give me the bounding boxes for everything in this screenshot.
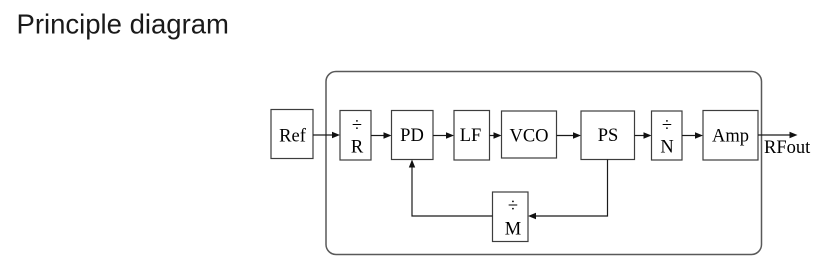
svg-text:LF: LF [460, 126, 482, 146]
svg-text:R: R [351, 138, 364, 158]
svg-text:RFout: RFout [764, 138, 811, 158]
svg-text:PD: PD [400, 126, 424, 146]
svg-text:M: M [505, 220, 521, 240]
svg-text:÷: ÷ [508, 197, 518, 217]
svg-text:VCO: VCO [509, 127, 548, 147]
svg-text:PS: PS [598, 126, 619, 146]
svg-text:÷: ÷ [662, 116, 672, 136]
svg-text:÷: ÷ [352, 116, 362, 136]
svg-text:Ref: Ref [279, 127, 307, 147]
svg-text:Principle diagram: Principle diagram [17, 9, 229, 40]
svg-text:Amp: Amp [712, 127, 749, 147]
svg-text:N: N [660, 138, 673, 158]
